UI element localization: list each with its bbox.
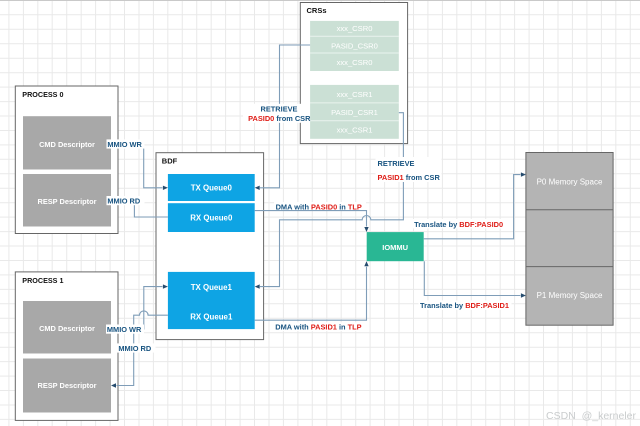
- svg-text:TX Queue0: TX Queue0: [191, 184, 233, 193]
- svg-text:CSDN @_kerneler: CSDN @_kerneler: [546, 410, 637, 422]
- svg-text:IOMMU: IOMMU: [382, 243, 408, 252]
- svg-text:DMA with PASID1 in TLP: DMA with PASID1 in TLP: [275, 323, 361, 332]
- svg-text:RESP Descriptor: RESP Descriptor: [37, 381, 96, 390]
- svg-text:xxx_CSR0: xxx_CSR0: [337, 58, 373, 67]
- svg-text:MMIO WR: MMIO WR: [107, 140, 142, 149]
- svg-text:TX Queue1: TX Queue1: [191, 283, 233, 292]
- svg-text:MMIO WR: MMIO WR: [107, 325, 142, 334]
- svg-text:CMD Descriptor: CMD Descriptor: [39, 140, 95, 149]
- svg-text:xxx_CSR1: xxx_CSR1: [337, 90, 373, 99]
- svg-text:RX Queue0: RX Queue0: [190, 213, 233, 222]
- svg-text:Translate by BDF:PASID0: Translate by BDF:PASID0: [414, 220, 503, 229]
- svg-text:P0 Memory Space: P0 Memory Space: [537, 178, 603, 187]
- svg-text:PROCESS 1: PROCESS 1: [22, 276, 63, 285]
- svg-text:CMD Descriptor: CMD Descriptor: [39, 324, 95, 333]
- svg-text:PROCESS 0: PROCESS 0: [22, 90, 63, 99]
- svg-text:RETRIEVE: RETRIEVE: [261, 104, 298, 113]
- svg-text:PASID_CSR1: PASID_CSR1: [331, 108, 378, 117]
- svg-text:Translate by BDF:PASID1: Translate by BDF:PASID1: [420, 301, 509, 310]
- svg-text:xxx_CSR0: xxx_CSR0: [337, 24, 373, 33]
- svg-text:MMIO RD: MMIO RD: [107, 197, 141, 206]
- svg-text:xxx_CSR1: xxx_CSR1: [337, 126, 373, 135]
- svg-text:MMIO RD: MMIO RD: [118, 344, 152, 353]
- svg-text:CRSs: CRSs: [307, 6, 327, 15]
- svg-text:PASID0 from CSR: PASID0 from CSR: [248, 114, 311, 123]
- svg-text:RESP Descriptor: RESP Descriptor: [37, 197, 96, 206]
- svg-text:PASID_CSR0: PASID_CSR0: [331, 42, 378, 51]
- svg-text:DMA with PASID0 in TLP: DMA with PASID0 in TLP: [276, 203, 362, 212]
- svg-text:BDF: BDF: [162, 157, 178, 166]
- svg-text:PASID1 from CSR: PASID1 from CSR: [378, 173, 441, 182]
- svg-text:P1 Memory Space: P1 Memory Space: [537, 291, 603, 300]
- svg-text:RX Queue1: RX Queue1: [190, 312, 233, 321]
- svg-text:RETRIEVE: RETRIEVE: [378, 159, 415, 168]
